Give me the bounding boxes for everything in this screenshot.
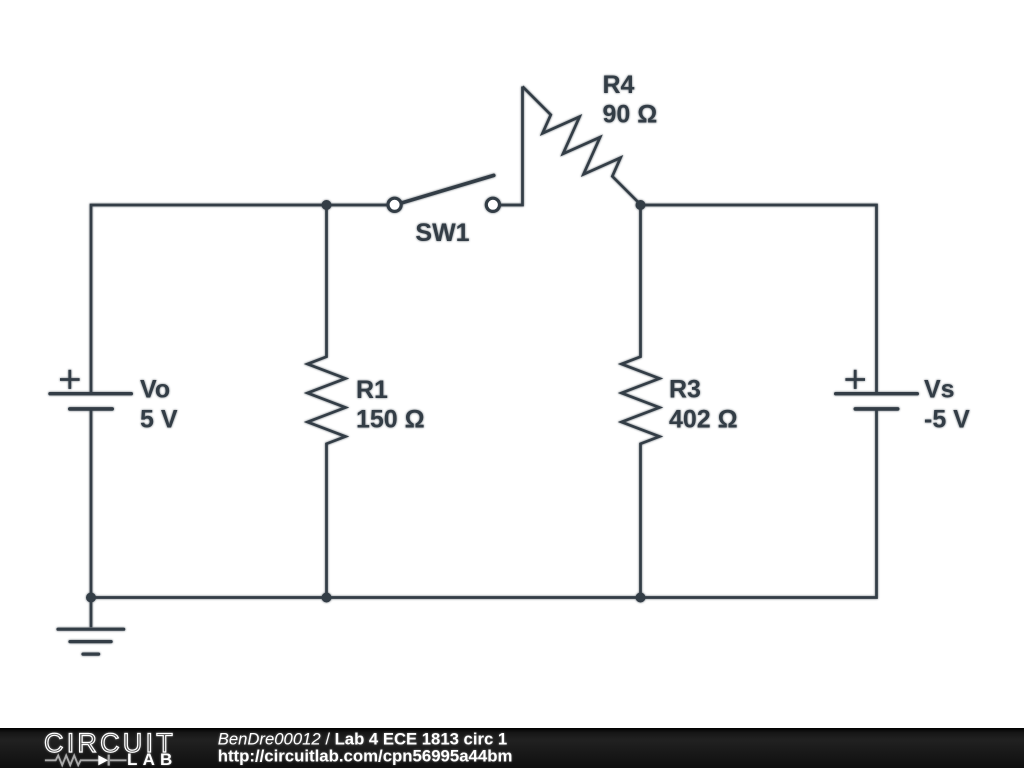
svg-text:Vs: Vs [924, 376, 955, 404]
svg-text:402 Ω: 402 Ω [669, 406, 738, 434]
wire: top-right rail node B to Vs positive lead [641, 205, 877, 394]
svg-text:SW1: SW1 [415, 219, 469, 247]
svg-text:R3: R3 [669, 376, 701, 404]
svg-text:Vo: Vo [140, 376, 170, 404]
footer attribution bar [0, 728, 1024, 768]
wire: SW1 right terminal to R4 top lead [499, 87, 522, 206]
svg-text:90 Ω: 90 Ω [603, 101, 658, 129]
svg-text:R1: R1 [356, 376, 388, 404]
voltage source Vs plates [836, 394, 918, 409]
switch SW1 right contact circle [486, 198, 499, 211]
svg-text:5 V: 5 V [140, 406, 178, 434]
svg-text:http://circuitlab.com/cpn56995: http://circuitlab.com/cpn56995a44bm [218, 747, 513, 766]
voltage source Vo plates [50, 394, 131, 409]
wire: Vo negative lead + bottom rail + Vs negative lead [91, 409, 877, 598]
ground symbol [58, 598, 124, 655]
resistor R4 [523, 87, 641, 205]
junction dot: node B top (R3/R4/top rail) [636, 200, 646, 210]
resistor R1 [308, 205, 346, 598]
junction dot: R3 bottom [636, 593, 646, 603]
switch SW1 lever [401, 175, 494, 203]
voltage source Vs plus sign [845, 370, 865, 389]
svg-text:150 Ω: 150 Ω [356, 406, 425, 434]
wire: Vo positive lead + top-left rail to SW1 [91, 205, 390, 394]
junction dot: node A top (R1/top rail) [322, 200, 332, 210]
junction dot: R1 bottom [322, 593, 332, 603]
svg-text:LAB: LAB [127, 750, 178, 768]
svg-text:-5 V: -5 V [924, 406, 970, 434]
junction dot: ground node bottom-left [86, 593, 96, 603]
CircuitLab logo diode triangle [98, 755, 108, 765]
svg-text:R4: R4 [603, 71, 635, 99]
resistor R3 [622, 205, 660, 598]
switch SW1 left contact circle [388, 198, 401, 211]
CircuitLab logo resistor-diode icon [45, 755, 127, 766]
voltage source Vo plus sign [60, 370, 80, 389]
